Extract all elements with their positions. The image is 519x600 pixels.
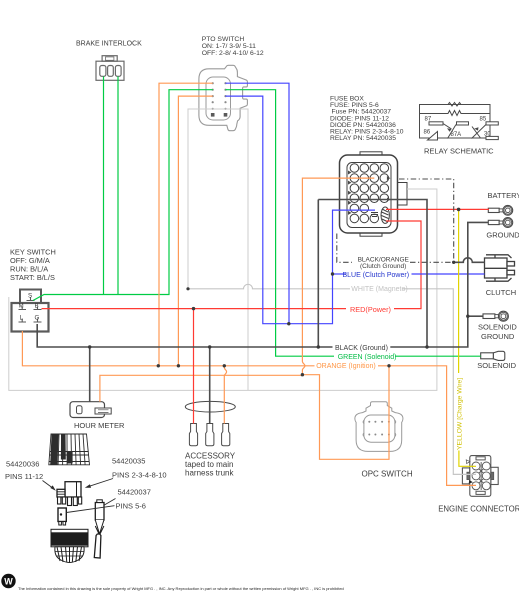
svg-text:PTO SWITCH: PTO SWITCH (202, 36, 245, 43)
svg-text:GROUND: GROUND (481, 332, 515, 341)
svg-text:RELAY SCHEMATIC: RELAY SCHEMATIC (424, 146, 494, 155)
svg-text:OPC SWITCH: OPC SWITCH (362, 470, 413, 479)
svg-text:START: B/L/S: START: B/L/S (10, 273, 55, 282)
svg-text:OFF: 2-8/ 4-10/ 6-12: OFF: 2-8/ 4-10/ 6-12 (202, 50, 264, 57)
svg-text:RED(Power): RED(Power) (350, 305, 391, 314)
svg-text:W: W (4, 577, 13, 587)
svg-text:SOLENOID: SOLENOID (477, 361, 516, 370)
svg-text:87: 87 (425, 117, 432, 123)
svg-text:85: 85 (480, 117, 487, 123)
svg-text:GROUND: GROUND (486, 230, 519, 239)
svg-text:GREEN (Solenoid): GREEN (Solenoid) (338, 354, 397, 361)
svg-text:54420036: 54420036 (6, 460, 39, 469)
svg-text:30: 30 (484, 132, 491, 138)
svg-text:The Information contained in t: The Information contained in this drawin… (18, 586, 344, 591)
svg-text:54420037: 54420037 (118, 488, 151, 497)
svg-text:RELAY PN: 54420035: RELAY PN: 54420035 (330, 135, 396, 142)
svg-text:PINS 5-6: PINS 5-6 (116, 502, 146, 511)
svg-text:YELLOW [Charge Wire]: YELLOW [Charge Wire] (457, 378, 464, 450)
svg-text:SOLENOID: SOLENOID (478, 323, 517, 332)
svg-text:B: B (35, 303, 39, 310)
svg-text:PINS 2-3-4-8-10: PINS 2-3-4-8-10 (112, 471, 167, 480)
svg-text:BRAKE INTERLOCK: BRAKE INTERLOCK (76, 41, 142, 48)
svg-text:CLUTCH: CLUTCH (486, 288, 516, 297)
svg-text:(Clutch Ground): (Clutch Ground) (360, 263, 406, 270)
svg-text:M: M (19, 303, 24, 310)
svg-text:BLACK (Ground): BLACK (Ground) (335, 345, 388, 352)
svg-text:ON: 1-7/ 3-9/ 5-11: ON: 1-7/ 3-9/ 5-11 (202, 43, 256, 50)
svg-text:HOUR METER: HOUR METER (74, 421, 125, 430)
svg-text:S: S (28, 293, 32, 300)
svg-text:WHITE (Magneto): WHITE (Magneto) (351, 286, 407, 293)
svg-text:87A: 87A (451, 132, 462, 138)
svg-text:BLUE (Clutch Power): BLUE (Clutch Power) (343, 272, 410, 279)
svg-text:54420035: 54420035 (112, 457, 145, 466)
svg-text:G: G (35, 315, 40, 322)
svg-text:86: 86 (424, 130, 431, 136)
svg-text:ORANGE (Ignition): ORANGE (Ignition) (316, 363, 376, 370)
svg-text:harness trunk: harness trunk (185, 469, 234, 478)
svg-text:ENGINE CONNECTOR: ENGINE CONNECTOR (438, 505, 519, 514)
svg-text:PINS 11-12: PINS 11-12 (5, 472, 43, 481)
svg-text:BATTERY: BATTERY (488, 191, 519, 200)
svg-text:L: L (20, 315, 24, 322)
